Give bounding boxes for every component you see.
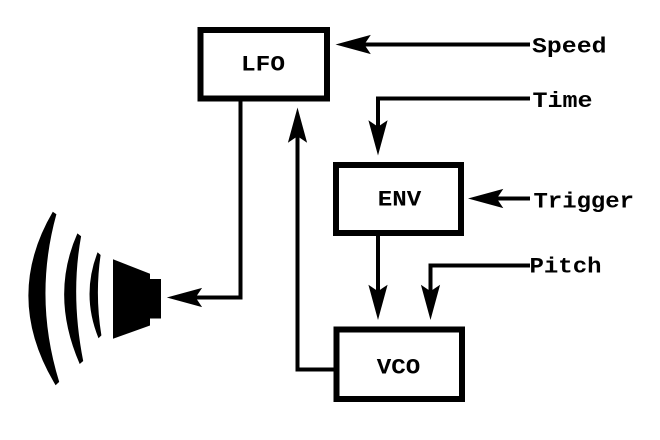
sound wave middle [64,233,83,364]
speaker driver [150,279,161,319]
arrowhead into ENV right [468,189,503,208]
svg-text:VCO: VCO [377,356,421,381]
svg-text:Pitch: Pitch [530,254,602,280]
arrowhead into VCO top left [368,285,387,320]
svg-text:Time: Time [533,88,593,114]
arrowhead into speaker [167,288,202,307]
sound wave inner [90,252,102,338]
svg-text:Trigger: Trigger [534,189,635,215]
arrowhead into LFO right [336,35,371,54]
svg-text:ENV: ENV [378,188,422,213]
speaker horn [113,259,150,339]
wire ENV to VCO [376,234,380,293]
wire Trigger to ENV [495,197,530,201]
block LFO [201,30,328,99]
wire VCO to LFO feedback [298,136,337,370]
arrowhead into VCO top right [421,285,440,320]
wire Time to ENV [378,99,530,129]
block ENV [336,165,461,233]
sound wave outer [28,212,59,385]
svg-text:Speed: Speed [532,34,607,60]
wire LFO to speaker [195,100,241,298]
wire Speed to LFO [362,43,530,47]
wire Pitch to VCO [431,266,531,294]
arrowhead into LFO bottom [288,108,307,143]
block VCO [337,330,463,400]
arrowhead into ENV top [368,120,387,155]
svg-text:LFO: LFO [241,53,285,78]
